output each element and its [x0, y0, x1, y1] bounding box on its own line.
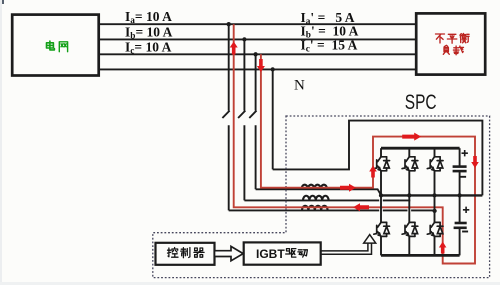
gate drive line with hollow arrow	[321, 243, 372, 254]
wire neutral run to DC midpoint	[273, 121, 483, 196]
wire phase B drop + breaker	[243, 39, 245, 110]
node tap neutral	[271, 67, 275, 71]
grid source box 电网	[12, 15, 99, 76]
svg-text:N: N	[294, 78, 305, 94]
transistor Q5 upper IGBT leg3	[434, 148, 436, 157]
wire AC midpoint bus	[381, 194, 482, 196]
node tap phase B	[242, 37, 246, 41]
wire phase B to leg2 (gap at leg1)	[244, 199, 410, 201]
wire phase A to leg3 (gaps at legs)	[229, 209, 435, 211]
red arrow right on top rail	[402, 133, 421, 141]
wire phase C to leg1 with bend	[256, 189, 381, 195]
controller box 控制器	[156, 243, 215, 265]
red compensation current path	[234, 24, 475, 263]
wire phase C drop + breaker	[255, 54, 257, 110]
wire DC negative rail	[381, 254, 460, 257]
red arrow up left bridge side	[369, 166, 377, 178]
inductor La (phase C line)	[302, 185, 328, 190]
wire DC positive rail	[381, 147, 460, 150]
SPC dashed boundary box	[153, 116, 490, 278]
svg-text:Ic' = 15 A: Ic' = 15 A	[301, 38, 358, 55]
transistor Q4 lower IGBT leg2	[408, 195, 410, 222]
inductor Lc (phase A line)	[302, 206, 328, 211]
block arrow controller to driver	[215, 246, 244, 260]
wire neutral N	[99, 68, 416, 70]
node tap phase C	[253, 52, 257, 56]
red arrow right on inductor line	[340, 184, 356, 192]
unbalanced load box 不平衡负载	[416, 13, 485, 74]
red arrow left on return line	[353, 203, 369, 211]
scan artifact corner	[0, 0, 4, 4]
node leg3 midpoint	[432, 193, 436, 197]
wire phase A	[99, 23, 416, 25]
red arrow up lower right	[439, 242, 447, 254]
IGBT driver box IGBT驱动	[244, 242, 321, 264]
node DC midpoint at capacitors	[457, 193, 461, 197]
capacitor C1 upper DC link	[459, 148, 461, 166]
red arrow down into SPC from phase C	[257, 59, 265, 72]
wire phase B	[99, 38, 416, 40]
node tap phase A	[227, 22, 231, 26]
node leg1 midpoint	[379, 193, 383, 197]
red arrow down right side	[471, 156, 479, 168]
transistor Q3 upper IGBT leg2	[408, 148, 410, 157]
transistor Q6 lower IGBT leg3	[434, 195, 436, 222]
inductor Lb (phase B line)	[303, 196, 329, 201]
red arrow up on phase A return	[230, 42, 238, 55]
svg-text:IGBT: IGBT	[256, 247, 285, 261]
wire neutral drop	[272, 69, 274, 169]
transistor Q1 upper IGBT leg1	[380, 148, 382, 157]
svg-text:SPC: SPC	[405, 89, 437, 113]
node leg2 midpoint	[407, 193, 411, 197]
capacitor C2 lower DC link	[459, 195, 461, 222]
wire phase C	[99, 53, 416, 55]
transistor Q2 lower IGBT leg1	[380, 195, 382, 222]
wire phase A drop + breaker	[228, 24, 230, 110]
node phase A to leg3	[432, 209, 436, 213]
